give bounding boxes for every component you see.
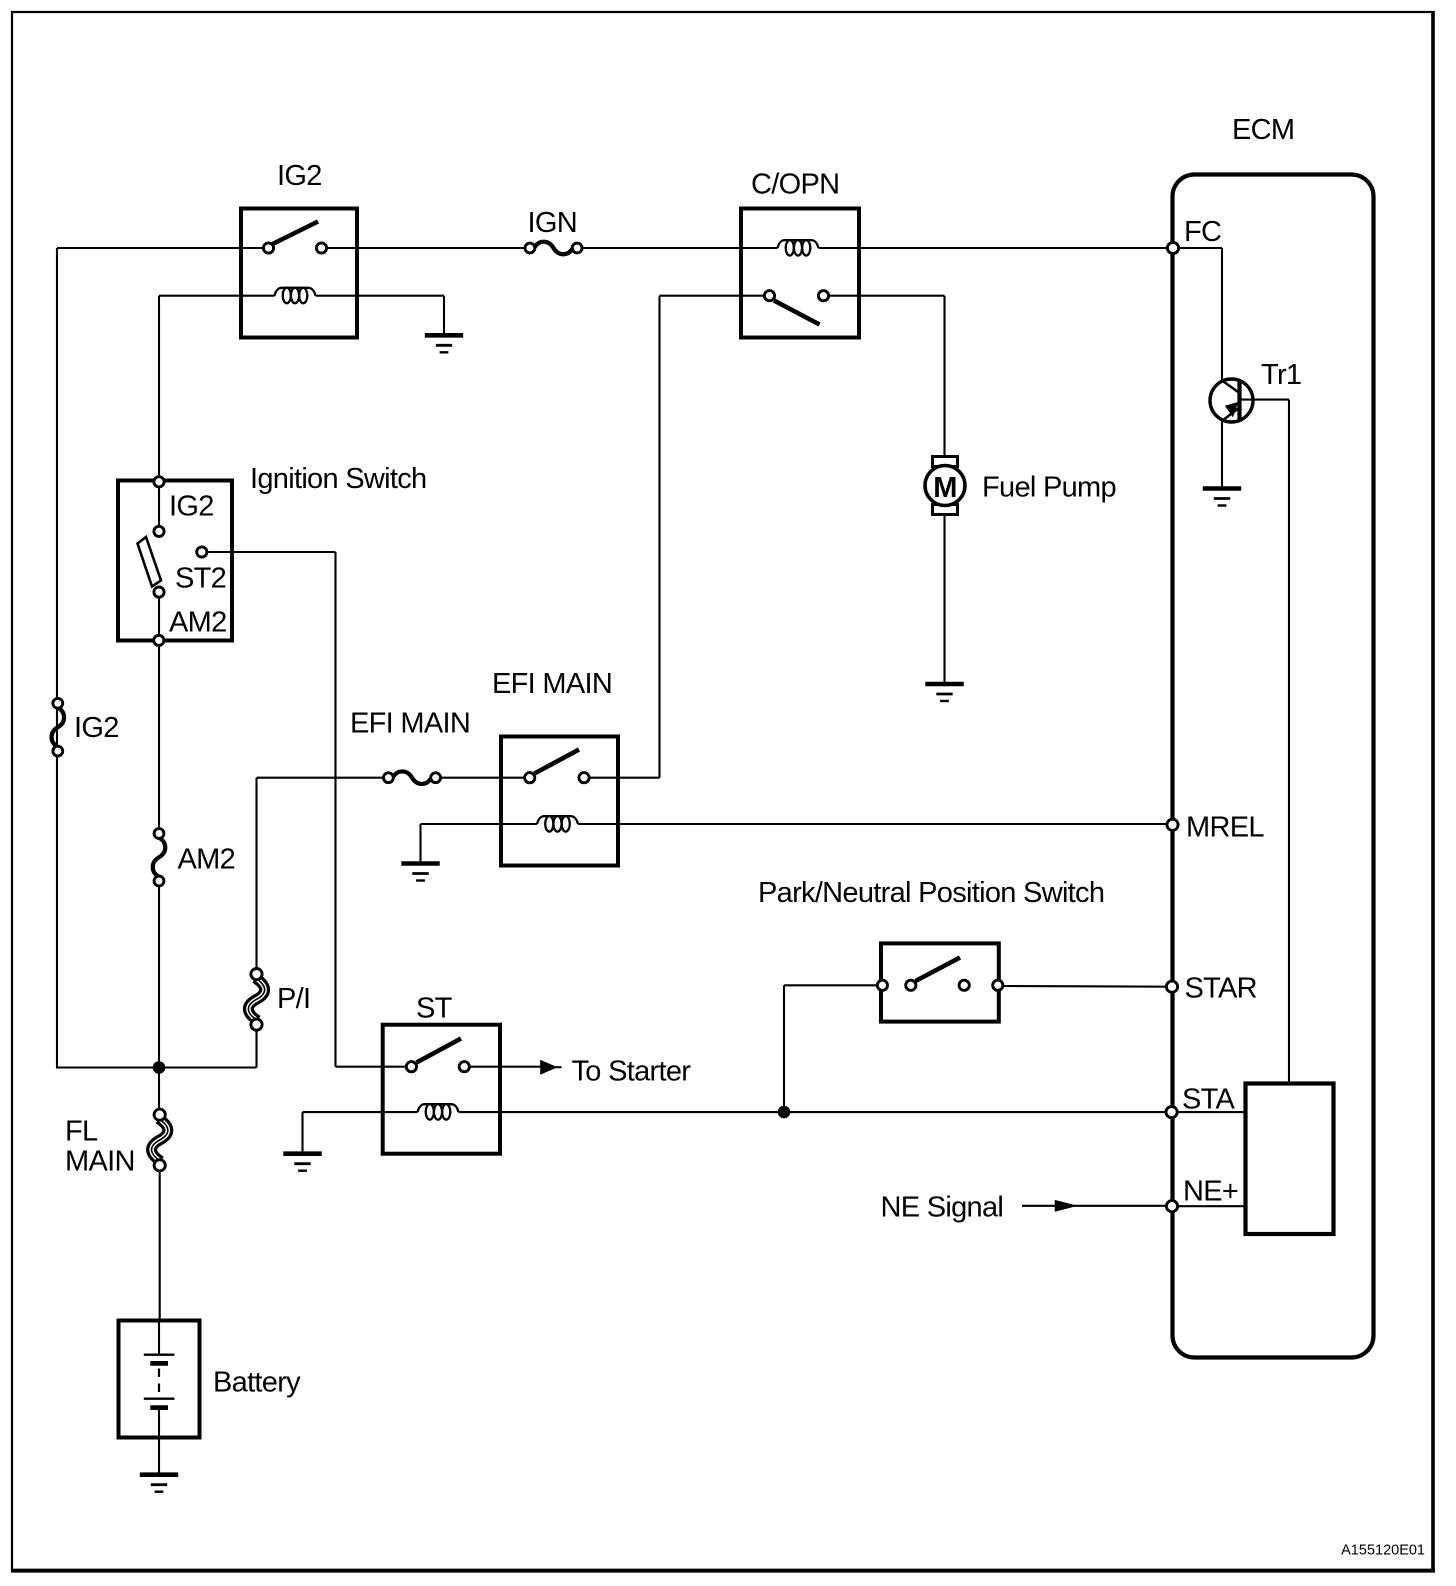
switch ignition switch box (118, 481, 232, 641)
svg-text:NE+: NE+ (1183, 1176, 1238, 1208)
relay IG2 switch contact left (263, 243, 273, 253)
node ignition ST2 contact lower (154, 587, 164, 597)
ground battery (140, 1475, 178, 1492)
wire fuel pump to ground (943, 515, 945, 684)
svg-text:P/I: P/I (277, 983, 310, 1015)
pin FC terminal (1167, 242, 1178, 253)
fuse EFI MAIN (384, 771, 441, 784)
svg-text:MREL: MREL (1186, 812, 1264, 844)
svg-text:ST: ST (416, 993, 453, 1025)
svg-text:AM2: AM2 (169, 607, 227, 639)
svg-text:IG2: IG2 (169, 491, 214, 523)
wire ignition AM2 down (158, 646, 160, 828)
fuse IG2 (left rail) (52, 698, 65, 756)
relay IG2 coil (275, 288, 316, 304)
wire IG2 relay to IGN fuse (327, 247, 525, 249)
switch park/neutral box (881, 943, 999, 1021)
relay EFI MAIN contact left (525, 773, 535, 783)
relay C/OPN switch contact right (818, 291, 828, 301)
wire NE+ pin to internal block (1172, 1205, 1245, 1207)
svg-text:Tr1: Tr1 (1261, 359, 1301, 391)
relay C/OPN coil (778, 240, 819, 256)
pin NE+ terminal (1166, 1201, 1177, 1212)
ground IG2 relay coil (425, 335, 463, 352)
wire P/I to junction rail (255, 1030, 257, 1068)
svg-text:AM2: AM2 (178, 844, 236, 876)
svg-text:FC: FC (1184, 216, 1221, 248)
motor fuel pump bottom bracket (933, 505, 958, 515)
wire battery+ feed left vertical B+ rail (56, 248, 58, 1068)
svg-text:IGN: IGN (528, 207, 577, 239)
relay EFI MAIN coil (537, 816, 578, 832)
switch P/N contact right (959, 980, 969, 990)
svg-text:EFI MAIN: EFI MAIN (350, 708, 470, 740)
wire FL MAIN to battery (159, 1171, 161, 1322)
fuse AM2 (153, 829, 166, 886)
block ECM internal circuit box (1246, 1084, 1334, 1235)
wire ST coil line to STA (303, 1111, 418, 1113)
ground Tr1 emitter (1203, 489, 1241, 506)
switch P/N terminal left edge (877, 980, 887, 990)
pin STAR terminal (1166, 981, 1177, 992)
node ignition IG2 contact (154, 526, 164, 536)
transistor Tr1 (1210, 379, 1253, 422)
pin STA terminal (1166, 1107, 1177, 1118)
wire Tr1 emitter to ground (1221, 421, 1223, 488)
svg-text:EFI MAIN: EFI MAIN (492, 668, 612, 700)
wire ST2 output to ST relay (207, 551, 336, 553)
relay ST box (383, 1025, 500, 1154)
svg-text:Ignition Switch: Ignition Switch (250, 463, 427, 495)
wire junction to FL MAIN (158, 1068, 160, 1110)
node ignition AM2 terminal (154, 635, 164, 645)
svg-text:Battery: Battery (213, 1367, 301, 1399)
pin MREL terminal (1167, 819, 1178, 830)
wire EFI MAIN fuse feed vertical (255, 778, 257, 969)
ECM outline box (1173, 175, 1374, 1358)
wire IG2 coil line (159, 295, 275, 297)
switch park/neutral blade (916, 958, 961, 982)
fuse IGN (525, 242, 582, 255)
svg-text:To Starter: To Starter (572, 1055, 692, 1087)
ground fuel pump (925, 684, 963, 701)
switch ignition blade wedge (138, 537, 162, 587)
wire EFI MAIN coil line to MREL (421, 823, 538, 825)
wire IG2 coil left down to ignition switch (158, 296, 160, 482)
relay IG2 switch contact right (316, 243, 326, 253)
wire C/OPN switch left to EFI MAIN relay (660, 295, 765, 297)
relay ST coil (418, 1104, 459, 1120)
relay EFI MAIN box (501, 737, 618, 866)
motor fuel pump circle M (925, 466, 965, 506)
wire AM2 terminal internal (158, 487, 160, 526)
svg-text:IG2: IG2 (74, 712, 119, 744)
svg-text:M: M (933, 472, 956, 504)
relay ST contact left (406, 1062, 416, 1072)
svg-text:MAIN: MAIN (65, 1146, 135, 1178)
wire AM2 fuse to junction (158, 887, 160, 1068)
wire battery negative to ground (158, 1438, 160, 1474)
wire IG2 coil right down to ground (443, 296, 445, 335)
switch P/N contact left (906, 980, 916, 990)
relay C/OPN switch blade (774, 301, 820, 325)
relay ST switch blade (417, 1039, 462, 1063)
relay IG2 switch blade (273, 222, 319, 245)
svg-text:Park/Neutral Position Switch: Park/Neutral Position Switch (758, 877, 1104, 909)
svg-text:ST2: ST2 (175, 563, 226, 595)
node junction ST coil / park-neutral (778, 1106, 791, 1119)
wire FC to Tr1 base (1173, 247, 1222, 249)
svg-text:FL: FL (65, 1116, 98, 1148)
relay IG2 box (241, 209, 357, 338)
breaker P/I fusible link (248, 969, 264, 1031)
battery box (119, 1321, 200, 1438)
motor fuel pump top bracket (933, 457, 958, 467)
relay C/OPN box (741, 209, 859, 338)
battery cells (144, 1321, 175, 1438)
relay C/OPN switch contact left (764, 291, 774, 301)
switch P/N terminal right edge (993, 980, 1003, 990)
node junction battery feed (153, 1061, 166, 1074)
wire P/N left leg to STA junction (784, 984, 877, 986)
svg-text:STAR: STAR (1185, 973, 1257, 1005)
wire ST to starter with arrow (470, 1066, 542, 1068)
wire Tr1 collector down to internal block (1242, 399, 1290, 401)
wire IGN fuse to C/OPN coil to ECM FC (582, 247, 778, 249)
wire EFI coil left to ground (419, 824, 421, 863)
node ignition top terminal (154, 477, 164, 487)
wire B+ rail to IG2 relay switch (57, 247, 264, 249)
wire P/N right to STAR (1003, 985, 1167, 988)
node ignition ST2 output terminal (197, 547, 207, 557)
svg-text:STA: STA (1182, 1084, 1236, 1116)
wire STA pin to internal block (1172, 1111, 1245, 1113)
svg-text:ECM: ECM (1232, 114, 1294, 146)
wire left rail to junction horizontal (56, 1066, 257, 1068)
svg-text:NE Signal: NE Signal (881, 1192, 1004, 1224)
relay ST contact right (459, 1062, 469, 1072)
svg-text:IG2: IG2 (277, 160, 322, 192)
wire EFI fuse to relay (441, 777, 525, 779)
ground EFI MAIN coil (401, 864, 439, 881)
relay EFI MAIN switch blade (535, 750, 580, 774)
fusible-link FL MAIN (152, 1109, 168, 1171)
wire NE signal arrow to NE+ (1022, 1205, 1166, 1207)
wire ST coil left to ground (301, 1112, 303, 1152)
svg-text:Fuel Pump: Fuel Pump (982, 472, 1116, 504)
svg-text:A155120E01: A155120E01 (1341, 1543, 1425, 1559)
relay EFI MAIN contact right (579, 773, 589, 783)
svg-text:C/OPN: C/OPN (751, 169, 839, 201)
wire C/OPN switch right to fuel pump (829, 295, 945, 297)
ground ST coil (283, 1154, 321, 1171)
